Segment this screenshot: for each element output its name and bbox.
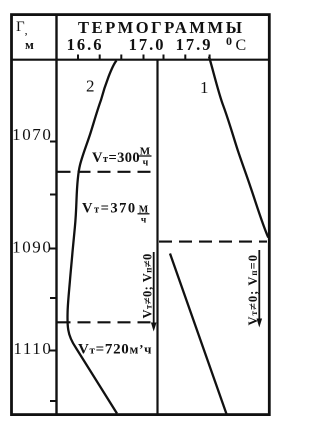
- svg-text:1090: 1090: [12, 238, 52, 257]
- svg-text:16.6: 16.6: [67, 35, 104, 54]
- svg-text:ч: ч: [143, 158, 149, 169]
- left annotation down arrow: [153, 252, 155, 326]
- header scale ticks: [78, 55, 210, 60]
- svg-text:Vт=300: Vт=300: [92, 150, 140, 166]
- dashed line at lower boundary (left panel): [58, 321, 158, 323]
- curve 1 lower segment: [170, 254, 227, 415]
- depth axis vertical line: [55, 14, 57, 415]
- svg-text:1110: 1110: [13, 339, 52, 358]
- svg-text:2: 2: [86, 77, 95, 96]
- svg-text:Vт=370: Vт=370: [82, 201, 137, 217]
- svg-text:17.0: 17.0: [129, 35, 166, 54]
- middle panel divider: [156, 60, 158, 415]
- dashed line at depth of Vт=300/370 boundary (left panel): [58, 171, 158, 173]
- svg-text:C: C: [236, 37, 247, 54]
- svg-text:1070: 1070: [12, 125, 52, 144]
- curve 1 upper segment (right thermogram): [209, 57, 268, 238]
- curve 2 (left thermogram): [67, 61, 117, 414]
- outer border frame: [12, 15, 270, 415]
- svg-text:0: 0: [226, 34, 232, 48]
- svg-text:1: 1: [200, 78, 209, 97]
- dashed line (right panel): [159, 241, 267, 243]
- right annotation down arrow: [258, 250, 260, 322]
- svg-text:Vт≠0; Vп=0: Vт≠0; Vп=0: [246, 254, 260, 325]
- svg-text:17.9: 17.9: [176, 35, 213, 54]
- fraction М/ч for 370: [138, 205, 150, 226]
- svg-text:ч: ч: [141, 215, 147, 225]
- svg-text:Vт=720м’ч: Vт=720м’ч: [78, 342, 152, 358]
- fraction М/ч for 300: [139, 146, 152, 169]
- header bottom line (temperature scale line): [11, 59, 269, 61]
- svg-text:м: м: [25, 37, 34, 52]
- depth axis ticks: [50, 142, 57, 402]
- svg-text:Vт≠0; Vп≠0: Vт≠0; Vп≠0: [141, 253, 155, 318]
